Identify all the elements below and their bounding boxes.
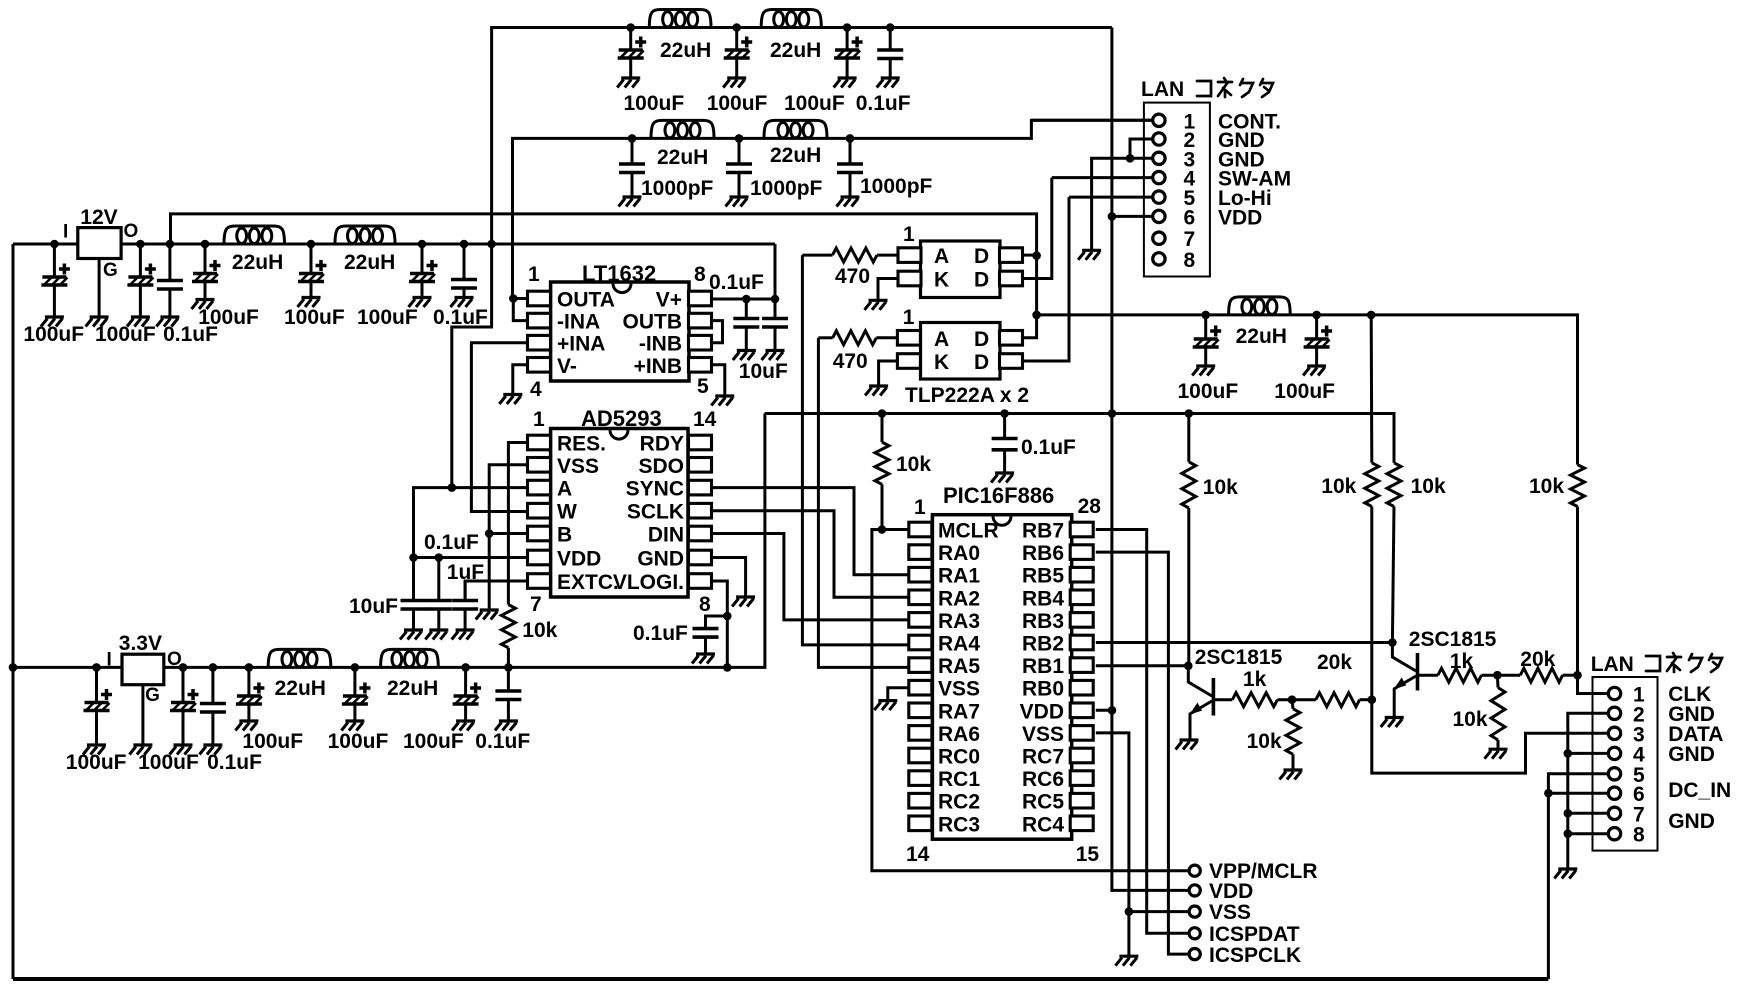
wire RES to pulldown	[508, 443, 527, 605]
junction 12V input cap	[50, 240, 59, 249]
svg-text:LAN: LAN	[1141, 78, 1184, 101]
capacitor 0.1uF (LC4)	[451, 244, 478, 307]
pin stub PIC right	[1070, 567, 1093, 582]
pin stub PIC right	[1070, 771, 1093, 786]
pin stub PIC left	[909, 567, 932, 582]
svg-text:0.1uF: 0.1uF	[424, 531, 479, 554]
svg-text:10k: 10k	[1203, 476, 1238, 499]
svg-text:10uF: 10uF	[739, 360, 788, 383]
junction 1000pF 2	[735, 134, 744, 143]
junction cap 100uF	[136, 240, 145, 249]
wire +INB to ground	[712, 365, 725, 396]
connector ICSP circle	[1189, 906, 1200, 917]
connector ICSP circle	[1189, 885, 1200, 896]
resistor 10k (pullup4)	[1571, 465, 1585, 507]
svg-text:100uF: 100uF	[403, 730, 464, 753]
pin stub PIC right	[1070, 703, 1093, 718]
resistor 470 (2)	[833, 331, 877, 345]
svg-text:D: D	[974, 245, 989, 268]
junction Q1 divider	[1288, 695, 1297, 704]
svg-text:K: K	[934, 351, 949, 374]
svg-text:OUTB: OUTB	[623, 311, 683, 334]
junction OUTA feedback	[509, 294, 518, 303]
svg-text:RC3: RC3	[938, 813, 980, 836]
resistor 1k (Q1)	[1232, 693, 1277, 707]
svg-text:10k: 10k	[522, 619, 557, 642]
svg-text:A: A	[557, 478, 572, 501]
wire LAN2 GND	[1130, 139, 1152, 158]
wire TLP2 D2 to LAN pin5	[1023, 197, 1070, 361]
junction LC cap 2	[307, 240, 316, 249]
junction 10k pullup1 top	[1185, 409, 1194, 418]
capacitor 100uF (3.3V LC2)	[341, 667, 370, 730]
junction PIC VDD	[1108, 706, 1117, 715]
pin stub PIC right	[1070, 726, 1093, 741]
svg-text:GND: GND	[1668, 743, 1715, 766]
junction mid rail pullup2	[1367, 311, 1376, 320]
pin stub PIC right	[1070, 613, 1093, 628]
wire V- to ground	[513, 365, 528, 395]
capacitor 100uF (12V input)	[41, 244, 70, 327]
ground 12V regulator	[86, 317, 109, 327]
svg-text:1: 1	[903, 223, 915, 246]
pin stub LT1632 left	[528, 291, 551, 306]
transistor Q1 emitter lead	[1190, 701, 1212, 740]
svg-text:22uH: 22uH	[275, 677, 326, 700]
wire VDD column	[1112, 28, 1189, 891]
pin stub AD5293 left	[528, 435, 551, 450]
transistor Q1 collector lead	[1188, 666, 1212, 696]
pin stub PIC right	[1070, 793, 1093, 808]
svg-text:22uH: 22uH	[1236, 325, 1287, 348]
connector pin 6 circle (LAN bottom)	[1608, 787, 1620, 799]
pin stub AD5293 right	[689, 550, 712, 565]
wire OUTB to -INB	[712, 321, 723, 343]
svg-text:1: 1	[533, 408, 545, 431]
svg-text:DC_IN: DC_IN	[1668, 779, 1731, 802]
svg-text:+INB: +INB	[634, 355, 682, 378]
capacitor 0.1uF (12V out)	[156, 244, 183, 327]
digital pot U2 AD5293 box	[551, 429, 688, 598]
junction TLP1 D1	[1032, 251, 1041, 260]
svg-text:1k: 1k	[1450, 650, 1474, 673]
capacitor 0.1uF (AD5293 VDD)	[425, 558, 452, 640]
wire LAN bottom 2 GND	[1568, 713, 1609, 869]
pin stub PIC left	[909, 590, 932, 605]
junction mid cap 2	[1312, 311, 1321, 320]
wire Q2 divider 10k top	[1496, 675, 1500, 687]
connector ICSP circle	[1189, 928, 1200, 939]
svg-text:RA0: RA0	[938, 542, 980, 565]
wire 12V rail	[121, 243, 775, 246]
connector pin 5 circle (LAN bottom)	[1608, 768, 1620, 780]
svg-text:DIN: DIN	[648, 524, 684, 547]
svg-text:RB0: RB0	[1022, 678, 1064, 701]
transistor Q2 emitter lead	[1394, 676, 1416, 718]
wire 3.3V reg G lead	[141, 685, 144, 745]
svg-text:RC7: RC7	[1022, 746, 1064, 769]
pin stub PIC left	[909, 771, 932, 786]
capacitor 10uF (AD5293 VDD)	[400, 558, 427, 640]
svg-text:2SC1815: 2SC1815	[1195, 646, 1283, 669]
wire SCLK to RA2	[711, 511, 909, 598]
capacitor 100uF (LC1)	[192, 244, 221, 309]
svg-text:20k: 20k	[1317, 651, 1352, 674]
capacitor 100uF (top C)	[834, 28, 863, 88]
svg-text:RDY: RDY	[640, 433, 684, 456]
svg-text:8: 8	[694, 263, 706, 286]
junction 0.1uF PIC	[1000, 409, 1009, 418]
pin stub AD5293 right	[689, 503, 712, 518]
junction Q1 collector	[1184, 662, 1193, 671]
wire TLP1 D1 out	[1023, 254, 1037, 257]
svg-text:470: 470	[833, 350, 868, 373]
wire pullup1 bottom	[1187, 508, 1190, 666]
svg-text:K: K	[934, 269, 949, 292]
wire 12V regulator G lead	[98, 259, 101, 318]
capacitor 1uF (EXTC)	[452, 581, 479, 640]
svg-text:22uH: 22uH	[660, 39, 711, 62]
svg-text:RB5: RB5	[1022, 565, 1064, 588]
svg-text:D: D	[974, 269, 989, 292]
pin stub AD5293 left	[528, 574, 551, 589]
svg-text:RA2: RA2	[938, 587, 980, 610]
svg-text:-INA: -INA	[557, 311, 600, 334]
svg-text:D: D	[974, 351, 989, 374]
svg-text:GND: GND	[1668, 810, 1715, 833]
wire EXTC to cap	[465, 581, 527, 601]
pin stub PIC right	[1070, 635, 1093, 650]
svg-text:10k: 10k	[1453, 708, 1488, 731]
svg-text:RB6: RB6	[1022, 542, 1064, 565]
svg-text:14: 14	[906, 843, 930, 866]
connector pin 3 circle (LAN top)	[1153, 152, 1165, 164]
junction LC cap 1	[201, 240, 210, 249]
svg-text:RB2: RB2	[1022, 633, 1064, 656]
wire pullup1	[1187, 414, 1190, 462]
wire LAN5 Lo-Hi	[1069, 196, 1152, 199]
connector pin 8 circle (LAN top)	[1153, 253, 1165, 265]
junction mid cap 1	[1201, 311, 1210, 320]
junction ICSP VSS	[1125, 907, 1134, 916]
svg-text:RA5: RA5	[938, 655, 980, 678]
pin stub PIC left	[909, 545, 932, 560]
resistor 10k (Q2 divider)	[1491, 688, 1505, 740]
connector pin 3 circle (LAN bottom)	[1608, 727, 1620, 739]
resistor 10k (RES)	[501, 605, 515, 648]
inductor 22uH (3.3V L1)	[268, 649, 331, 667]
svg-text:EXTC.: EXTC.	[557, 571, 619, 594]
svg-text:G: G	[103, 260, 118, 281]
pin stub TLP2 D2	[1000, 354, 1023, 369]
junction Q2 divider	[1493, 671, 1502, 680]
wire Q1 base to 1k	[1213, 698, 1232, 701]
capacitor 100uF (3.3V out)	[170, 667, 199, 754]
junction 3.3V LC cap1	[245, 663, 254, 672]
svg-text:+INA: +INA	[557, 333, 605, 356]
capacitor 100uF (3.3V in)	[83, 667, 112, 754]
pin stub LT1632 right	[689, 313, 712, 328]
junction Q2 collector	[1388, 638, 1397, 647]
svg-text:RA6: RA6	[938, 723, 980, 746]
svg-text:14: 14	[693, 408, 717, 431]
resistor 10k (MCLR pullup)	[875, 442, 889, 484]
svg-text:A: A	[934, 328, 949, 351]
microcontroller U5 PIC16F886 box	[932, 515, 1071, 840]
svg-text:20k: 20k	[1520, 648, 1555, 671]
wire 12V mid rail	[1037, 315, 1578, 465]
connector pin 5 circle (LAN top)	[1153, 191, 1165, 203]
wire RB7 to ICSPDAT	[1096, 530, 1189, 934]
svg-text:7: 7	[1184, 228, 1196, 251]
wire LAN bottom 6	[1548, 792, 1608, 795]
wire pullup2	[1370, 315, 1374, 463]
ground Q2 emitter	[1381, 718, 1404, 728]
svg-text:1: 1	[903, 306, 915, 329]
connector pin 2 circle (LAN bottom)	[1608, 707, 1620, 719]
wire VSS to B	[489, 465, 527, 534]
svg-text:10k: 10k	[1411, 475, 1446, 498]
svg-text:VLOGI.: VLOGI.	[613, 571, 684, 594]
svg-text:2SC1815: 2SC1815	[1409, 628, 1497, 651]
pin stub LT1632 left	[528, 358, 551, 373]
wire LAN bottom 4	[1568, 752, 1609, 755]
svg-text:W: W	[557, 501, 577, 524]
svg-text:12V: 12V	[80, 206, 117, 229]
pin stub PIC left	[909, 703, 932, 718]
svg-text:1000pF: 1000pF	[860, 175, 933, 198]
transistor Q2 emitter arrow	[1396, 679, 1406, 688]
wire 1k to 20k (Q2)	[1482, 674, 1521, 677]
junction VSS-B	[485, 529, 494, 538]
svg-text:6: 6	[1184, 206, 1196, 229]
svg-text:22uH: 22uH	[387, 677, 438, 700]
svg-text:VSS: VSS	[938, 678, 980, 701]
svg-text:100uF: 100uF	[784, 92, 845, 115]
svg-text:VDD: VDD	[1209, 880, 1253, 903]
pin stub LT1632 right	[689, 358, 712, 373]
resistor 470 (1)	[833, 248, 878, 262]
ground 3.3V regulator	[129, 745, 152, 755]
capacitor 100uF (12V out)	[127, 244, 156, 327]
pin stub TLP1 A	[898, 248, 921, 263]
wire TLP1 K to ground	[878, 279, 898, 301]
transistor Q2 collector lead	[1392, 643, 1416, 672]
wire TLP2 D1 to 12V node	[1023, 256, 1037, 338]
svg-text:OUTA: OUTA	[557, 289, 615, 312]
op-amp U1 LT1632 box	[551, 282, 689, 381]
svg-text:10k: 10k	[1529, 475, 1564, 498]
svg-text:LAN: LAN	[1591, 653, 1634, 676]
pin stub PIC right	[1070, 748, 1093, 763]
pin stub PIC left	[909, 680, 932, 695]
wire VSS/B to ground	[488, 534, 491, 611]
junction MCLR pullup	[878, 525, 887, 534]
pin stub PIC right	[1070, 816, 1093, 831]
wire 10k MCLR top lead	[881, 414, 884, 443]
ground LAN bottom	[1554, 869, 1577, 879]
svg-text:A: A	[934, 245, 949, 268]
wire TLP2 K to ground	[879, 361, 898, 386]
svg-text:V-: V-	[557, 355, 577, 378]
wire 1k to 20k (Q1)	[1278, 698, 1316, 701]
svg-text:10uF: 10uF	[349, 595, 398, 618]
junction VDD line x1112	[1108, 409, 1117, 418]
svg-text:GND: GND	[637, 548, 684, 571]
wire pullup2 bottom	[1370, 507, 1373, 700]
optocoupler U3 TLP222A box	[921, 241, 1001, 298]
wire OUTA to 1000pF filter	[513, 120, 1153, 298]
junction 3.3V LC cap3	[461, 663, 470, 672]
svg-text:VSS: VSS	[557, 455, 599, 478]
wire VDD pin	[414, 556, 528, 559]
svg-text:1uF: 1uF	[447, 561, 485, 584]
pin stub AD5293 right	[689, 480, 712, 495]
svg-text:100uF: 100uF	[138, 751, 199, 774]
wire ICSP VSS	[1129, 910, 1189, 913]
svg-text:0.1uF: 0.1uF	[207, 751, 262, 774]
junction VDD cap2	[435, 553, 444, 562]
capacitor 1000pF (1)	[619, 138, 646, 206]
svg-text:0.1uF: 0.1uF	[709, 271, 764, 294]
pin stub PIC left	[909, 816, 932, 831]
wire TLP1 D2 to LAN pin4	[1023, 178, 1052, 279]
wire LAN6 VDD	[1112, 215, 1153, 218]
ground LT1632 +INB	[711, 396, 734, 406]
inductor 22uH (12V L2)	[335, 226, 395, 244]
pin stub PIC right	[1070, 680, 1093, 695]
svg-text:100uF: 100uF	[66, 751, 127, 774]
pin stub AD5293 right	[689, 435, 712, 450]
connector pin 1 circle (LAN top)	[1153, 114, 1165, 126]
wire pullup4 bottom	[1576, 507, 1579, 676]
inductor 22uH (mid)	[1229, 297, 1291, 315]
capacitor 0.1uF (3.3V LC4)	[495, 667, 522, 730]
svg-text:100uF: 100uF	[1274, 380, 1335, 403]
junction LC cap 3	[418, 240, 427, 249]
junction LANb 7	[1564, 809, 1573, 818]
svg-text:22uH: 22uH	[657, 146, 708, 169]
inductor 22uH (sig L1)	[651, 120, 714, 138]
ground AD5293 GND	[732, 597, 755, 607]
ground TLP1 K	[865, 300, 888, 310]
junction VDD cap1	[409, 553, 418, 562]
svg-text:D: D	[974, 328, 989, 351]
svg-text:RA4: RA4	[938, 633, 980, 656]
capacitor 0.1uF (V+)	[733, 299, 760, 360]
svg-text:1000pF: 1000pF	[750, 177, 823, 200]
wire 470 to TLP1 A	[877, 254, 898, 257]
wire bottom DC_IN bus	[13, 977, 1548, 981]
junction 10k/cap on 3.3V rail	[504, 663, 513, 672]
wire left DC_IN bus vertical	[12, 244, 15, 979]
svg-text:VDD: VDD	[1020, 700, 1064, 723]
resistor 10k (pullup1)	[1182, 462, 1196, 508]
junction top cap A	[626, 23, 635, 32]
connector LAN bottom box	[1593, 677, 1658, 851]
ground PIC VSS left	[874, 701, 897, 711]
ground Q2 divider	[1485, 749, 1508, 759]
wire PIC VSS right down	[1096, 733, 1129, 956]
capacitor 0.1uF (VLOGIC)	[692, 616, 719, 664]
ground LAN top GND	[1078, 250, 1101, 259]
wire DC input to 12V regulator	[13, 243, 78, 246]
junction VLOGIC on 3.3V rail	[723, 663, 732, 672]
svg-text:7: 7	[530, 593, 542, 616]
svg-text:100uF: 100uF	[23, 323, 84, 346]
pin stub AD5293 left	[528, 480, 551, 495]
svg-text:RA1: RA1	[938, 565, 980, 588]
wire SYNC to RA1	[711, 488, 909, 575]
connector pin 6 circle (LAN top)	[1153, 210, 1165, 222]
wire LAN bottom 8	[1568, 832, 1609, 835]
wire DATA column to LAN3	[1372, 700, 1609, 773]
capacitor 100uF (3.3V LC1)	[235, 667, 264, 730]
svg-text:MCLR: MCLR	[938, 520, 999, 543]
svg-text:22uH: 22uH	[770, 39, 821, 62]
svg-text:RC2: RC2	[938, 791, 980, 814]
junction LAN6 VDD	[1108, 212, 1117, 221]
pin stub TLP1 K	[898, 271, 921, 286]
pin stub PIC left	[909, 658, 932, 673]
transistor Q1 base bar	[1212, 678, 1216, 716]
svg-text:1k: 1k	[1243, 668, 1267, 691]
capacitor 100uF (top B)	[723, 28, 752, 88]
pin stub PIC left	[909, 635, 932, 650]
junction 3.3V input	[9, 663, 18, 672]
svg-text:RB1: RB1	[1022, 655, 1064, 678]
svg-text:V+: V+	[656, 289, 682, 312]
junction top cap B	[732, 23, 741, 32]
capacitor 10uF (V+)	[762, 299, 789, 360]
pin stub PIC left	[909, 748, 932, 763]
inductor 22uH (sig L2)	[764, 120, 827, 138]
svg-text:-INB: -INB	[639, 333, 682, 356]
pin stub TLP2 D1	[1000, 331, 1023, 346]
connector ICSP circle	[1189, 949, 1200, 960]
pin stub LT1632 right	[689, 291, 712, 306]
pin stub LT1632 right	[689, 335, 712, 350]
transistor Q1 emitter arrow	[1191, 704, 1201, 713]
pin stub LT1632 left	[528, 335, 551, 350]
connector pin 8 circle (LAN bottom)	[1608, 828, 1620, 840]
transistor Q2 base bar	[1416, 653, 1420, 691]
pin stub PIC right	[1070, 522, 1093, 537]
wire V+ supply	[712, 298, 776, 301]
svg-text:1: 1	[914, 496, 926, 519]
wire GND to ground	[711, 558, 746, 598]
svg-text:ICSPDAT: ICSPDAT	[1209, 923, 1300, 946]
pin stub PIC right	[1070, 545, 1093, 560]
wire PIC VDD	[1096, 709, 1112, 712]
wire RA5 to 470 (2)	[818, 336, 832, 339]
junction 3.3V LC cap2	[351, 663, 360, 672]
wire RB1 to Q1	[1096, 664, 1189, 667]
pin stub PIC left	[909, 726, 932, 741]
capacitor 0.1uF (PIC)	[991, 414, 1018, 483]
svg-text:RA7: RA7	[938, 700, 980, 723]
wire 10k MCLR bottom lead	[881, 484, 884, 529]
junction LC cap 4	[460, 240, 469, 249]
svg-text:100uF: 100uF	[624, 92, 685, 115]
wire pullup3 bottom	[1392, 507, 1394, 643]
svg-text:RC4: RC4	[1022, 813, 1064, 836]
inductor 22uH (12V L1)	[224, 226, 285, 244]
pin stub LT1632 left	[528, 313, 551, 328]
wire Q2 base to 1k	[1418, 674, 1438, 677]
wire 12V to A	[452, 244, 492, 488]
capacitor 100uF (mid1)	[1192, 315, 1221, 376]
